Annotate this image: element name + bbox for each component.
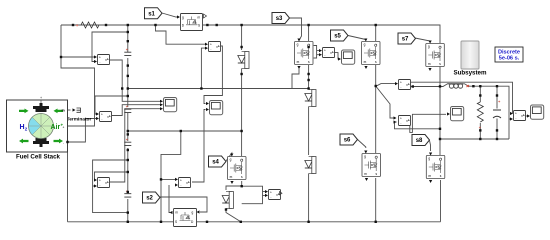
svg-text:H: H (20, 124, 25, 131)
svg-text:s1: s1 (148, 11, 155, 17)
svg-text:Terminator: Terminator (67, 117, 92, 123)
svg-text:s2: s2 (146, 196, 153, 202)
svg-text:5e-06 s.: 5e-06 s. (499, 56, 520, 62)
svg-text:s7: s7 (402, 37, 409, 43)
svg-text:-: - (63, 142, 64, 146)
svg-text:Air: Air (51, 124, 61, 131)
svg-text:m: m (175, 211, 178, 215)
svg-text:Subsystem: Subsystem (453, 70, 487, 77)
svg-text:S: S (175, 220, 177, 224)
svg-text:+: + (63, 126, 65, 130)
svg-text:s6: s6 (344, 138, 351, 144)
svg-text:g: g (192, 211, 194, 215)
svg-text:s3: s3 (276, 16, 283, 22)
svg-text:s4: s4 (212, 160, 219, 166)
svg-text:s8: s8 (416, 138, 423, 144)
svg-text:Fuel Cell Stack: Fuel Cell Stack (16, 154, 61, 161)
svg-text:s5: s5 (334, 34, 341, 40)
svg-text:+: + (76, 23, 79, 28)
svg-text:m: m (62, 109, 65, 113)
svg-text:+: + (40, 96, 42, 100)
